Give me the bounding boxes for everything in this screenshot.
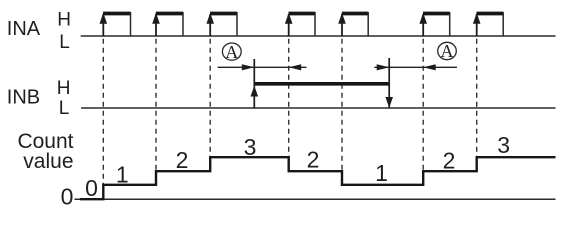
svg-text:3: 3 xyxy=(244,134,257,160)
INB falling edge down arrowhead xyxy=(385,97,393,108)
svg-text:0: 0 xyxy=(61,184,74,210)
dimension A right: right-pointing arrowhead at INB falling edge xyxy=(377,64,390,70)
INA pulse 6 falling edge xyxy=(449,12,451,36)
INA pulse 4 top (H) xyxy=(289,12,316,16)
svg-text:2: 2 xyxy=(307,147,320,173)
INB baseline (L level) wire xyxy=(81,107,556,109)
INA pulse 6 rising edge arrow xyxy=(422,14,424,36)
INB falling edge line extended to dimension line xyxy=(388,58,390,108)
INB rising edge up arrowhead xyxy=(251,86,259,97)
dashed timing line t4 xyxy=(288,39,290,157)
dashed timing line t2 xyxy=(155,39,157,171)
INB pulse top (H) xyxy=(254,82,389,86)
svg-text:L: L xyxy=(59,98,70,119)
INA pulse 6 top (H) xyxy=(423,12,450,16)
INA pulse 4 rising edge arrow xyxy=(288,14,290,36)
svg-text:value: value xyxy=(23,150,73,173)
INA baseline (L level) wire xyxy=(81,35,556,37)
INA pulse 3 falling edge xyxy=(236,12,238,36)
INA pulse 1 falling edge xyxy=(130,12,132,36)
svg-text:1: 1 xyxy=(116,161,129,187)
dimension A left: circled A label xyxy=(222,43,241,60)
INA pulse 5 falling edge xyxy=(367,12,369,36)
svg-text:H: H xyxy=(57,9,71,30)
INA pulse 5 rising edge arrow xyxy=(341,14,343,36)
INA pulse 3 top (H) xyxy=(210,12,237,16)
dimension A left: left-pointing arrowhead at t4 xyxy=(289,64,302,70)
INB rising edge line extended to dimension line xyxy=(253,59,255,108)
dimension A right: circled A label xyxy=(438,42,457,59)
svg-text:A: A xyxy=(441,41,454,61)
INA pulse 1 rising edge arrow xyxy=(102,14,104,36)
dashed timing line t6 xyxy=(422,39,424,171)
INA pulse 2 falling edge xyxy=(182,12,184,36)
INA pulse 7 top (H) xyxy=(477,12,504,16)
dashed timing line t5 xyxy=(341,39,343,171)
INA pulse 1 top (H) xyxy=(103,12,131,16)
INA pulse 3 rising edge arrow xyxy=(209,14,211,36)
dashed timing line t1 xyxy=(102,39,104,185)
dimension A left: right-pointing arrowhead at INB rising edge xyxy=(242,64,255,70)
INA pulse 2 rising edge arrow xyxy=(155,14,157,36)
INA pulse 7 falling edge xyxy=(502,12,504,36)
svg-text:1: 1 xyxy=(375,160,388,186)
svg-text:2: 2 xyxy=(443,148,456,174)
count staircase waveform xyxy=(80,157,556,199)
dimension A right: left-pointing arrowhead at t6 xyxy=(423,64,436,70)
dimension A left: measure line xyxy=(218,66,307,68)
dashed timing line t7 xyxy=(476,39,478,157)
count axis baseline xyxy=(75,198,556,200)
dimension A right: measure line xyxy=(374,66,457,68)
svg-text:INA: INA xyxy=(7,18,41,40)
svg-text:H: H xyxy=(57,78,71,99)
INA pulse 7 rising edge arrow xyxy=(476,14,478,36)
svg-text:0: 0 xyxy=(85,175,98,201)
svg-text:L: L xyxy=(59,32,70,53)
dashed timing line t3 xyxy=(209,39,211,157)
svg-text:A: A xyxy=(225,42,238,62)
INA pulse 4 falling edge xyxy=(314,12,316,36)
INA pulse 2 top (H) xyxy=(156,12,183,16)
svg-text:INB: INB xyxy=(7,87,40,109)
svg-text:3: 3 xyxy=(497,132,510,158)
svg-text:2: 2 xyxy=(176,147,189,173)
INA pulse 5 top (H) xyxy=(342,12,368,16)
